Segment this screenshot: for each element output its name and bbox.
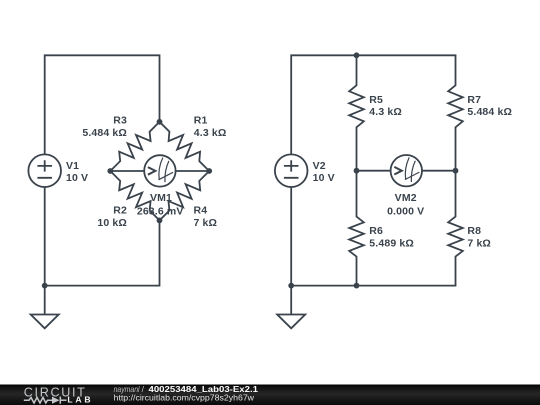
svg-text:V1: V1 (66, 160, 79, 172)
svg-text:5.484 kΩ: 5.484 kΩ (467, 106, 512, 118)
node dot bottom-left junction (42, 283, 48, 289)
resistor R5 (349, 55, 364, 170)
node dot mid-right (453, 168, 459, 174)
svg-text:0.000 V: 0.000 V (387, 205, 424, 217)
ground GND1 (31, 315, 59, 329)
node dot right top (354, 52, 360, 58)
wire bridge bottom to bottom rail to V1 column (45, 220, 160, 285)
node dot mid-left (354, 168, 360, 174)
wire V1 bottom to ground (44, 187, 46, 315)
resistor R2 (110, 171, 159, 220)
svg-text:7 kΩ: 7 kΩ (194, 217, 218, 229)
wire bridge mid-right VM1 (176, 170, 210, 172)
svg-text:R7: R7 (467, 94, 481, 106)
resistor R7 (448, 55, 463, 170)
svg-text:R4: R4 (194, 205, 208, 217)
node dot bottom V2 (288, 283, 294, 289)
resistor R1 (160, 122, 210, 171)
ground GND2 (277, 315, 305, 329)
svg-text:5.489 kΩ: 5.489 kΩ (369, 237, 414, 249)
svg-text:R8: R8 (467, 225, 481, 237)
svg-text:R1: R1 (194, 115, 208, 127)
resistor R8 (448, 171, 463, 286)
svg-text:V2: V2 (313, 160, 326, 172)
svg-text:10 V: 10 V (313, 172, 335, 184)
wire top-left loop V1 to bridge top (45, 55, 160, 154)
logo resistor-diode glyph (24, 397, 67, 404)
node dot bridge right (206, 168, 212, 174)
svg-text:263.6 mV: 263.6 mV (137, 206, 184, 218)
svg-text:VM1: VM1 (150, 192, 172, 204)
resistor R3 (110, 122, 159, 171)
voltmeter VM2 (391, 155, 422, 186)
node dot bridge left (107, 168, 113, 174)
svg-text:R2: R2 (113, 205, 127, 217)
resistor R4 (160, 171, 210, 220)
wire mid rail right of VM2 (422, 170, 456, 172)
wire bridge mid-left VM1 (110, 170, 144, 172)
svg-text:10 V: 10 V (66, 172, 88, 184)
svg-text:5.484 kΩ: 5.484 kΩ (82, 127, 127, 139)
svg-text:7 kΩ: 7 kΩ (467, 237, 491, 249)
node dot bridge top (157, 119, 163, 125)
svg-text:4.3 kΩ: 4.3 kΩ (369, 106, 402, 118)
svg-text:http://circuitlab.com/cvpp78s2: http://circuitlab.com/cvpp78s2yh67w (114, 392, 255, 402)
node dot bridge bottom (157, 218, 163, 224)
wire V2 bottom to ground (290, 187, 292, 315)
voltage source V2 (275, 154, 308, 187)
svg-text:R6: R6 (369, 225, 383, 237)
wire bottom rail right circuit (291, 285, 456, 287)
wire mid rail left of VM2 (357, 170, 391, 172)
svg-text:LAB: LAB (67, 394, 90, 404)
svg-text:VM2: VM2 (395, 192, 417, 204)
svg-text:4.3 kΩ: 4.3 kΩ (194, 127, 227, 139)
voltage source V1 (28, 154, 61, 187)
svg-text:R3: R3 (113, 115, 127, 127)
svg-text:10 kΩ: 10 kΩ (97, 217, 127, 229)
voltmeter VM1 (144, 155, 175, 186)
resistor R6 (349, 171, 364, 286)
node dot bottom R6 (354, 283, 360, 289)
svg-text:R5: R5 (369, 94, 383, 106)
wire V2 top loop (291, 55, 456, 154)
